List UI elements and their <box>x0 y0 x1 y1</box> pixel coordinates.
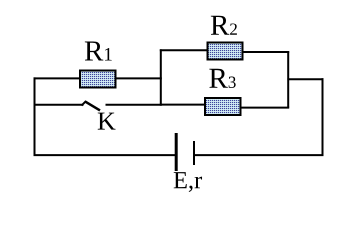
label R1 <box>85 42 112 61</box>
wire: switch right lead <box>106 104 162 106</box>
wire: switch left lead <box>34 104 84 106</box>
battery short plate <box>193 141 195 165</box>
label R3 <box>209 69 235 88</box>
label K <box>98 113 116 130</box>
resistor R1 <box>80 71 116 88</box>
switch K contact tick <box>82 101 87 106</box>
wire: left vertical <box>34 77 36 156</box>
label R2 <box>211 16 237 35</box>
wire: bottom right segment from battery <box>194 154 324 156</box>
switch K blade <box>85 101 100 110</box>
wire: bottom left segment to battery <box>34 154 177 156</box>
wire: middle right horizontal <box>287 78 323 80</box>
wire: parallel box right vertical <box>287 51 289 107</box>
wire: parallel box left vertical <box>160 49 162 105</box>
resistor R2 <box>208 43 243 60</box>
label E,r <box>174 172 202 192</box>
wire: R2 branch left lead <box>160 49 210 51</box>
battery long plate <box>175 133 178 171</box>
wire: R1 branch horizontal <box>34 77 162 79</box>
wire: R2 branch right lead <box>240 51 289 53</box>
wire: R3 branch right lead <box>238 107 289 109</box>
wire: right vertical <box>322 78 324 156</box>
wire: R3 branch left lead <box>160 104 208 106</box>
resistor R3 <box>205 98 241 115</box>
